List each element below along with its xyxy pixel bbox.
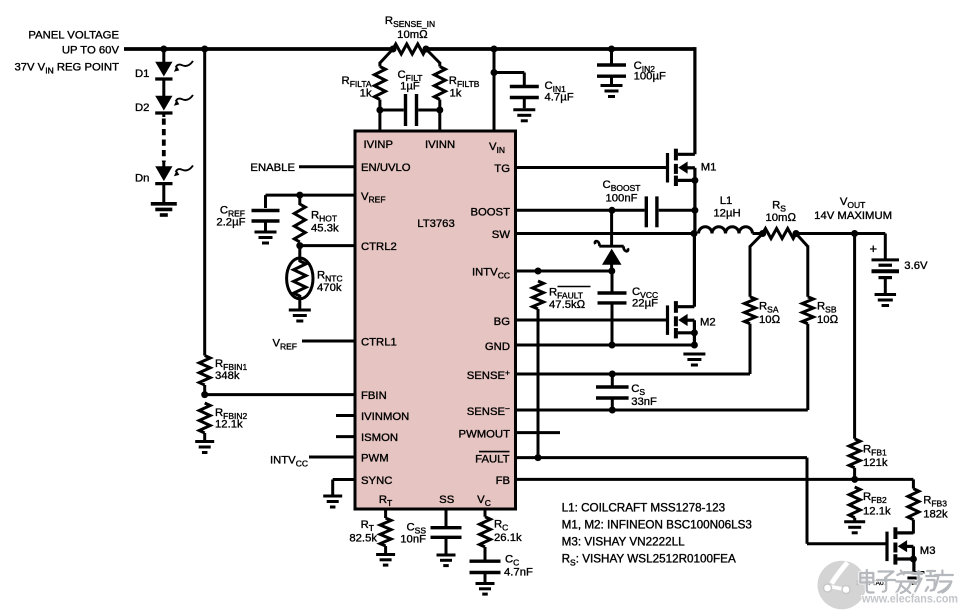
svg-text:M1: M1 <box>701 162 717 174</box>
svg-text:14V MAXIMUM: 14V MAXIMUM <box>814 210 892 222</box>
svg-text:1k: 1k <box>450 88 462 100</box>
svg-text:SYNC: SYNC <box>361 475 392 487</box>
svg-text:ISMON: ISMON <box>361 432 398 444</box>
svg-text:45.3k: 45.3k <box>311 223 339 235</box>
svg-text:M2: M2 <box>700 317 716 329</box>
svg-text:Dn: Dn <box>135 173 149 185</box>
svg-text:EN/UVLO: EN/UVLO <box>361 162 411 174</box>
svg-text:26.1k: 26.1k <box>494 532 522 544</box>
svg-text:1k: 1k <box>360 88 372 100</box>
svg-text:10Ω: 10Ω <box>759 314 781 326</box>
svg-text:L1: L1 <box>720 195 733 207</box>
svg-text:1µF: 1µF <box>400 81 420 93</box>
svg-text:TG: TG <box>494 163 510 175</box>
svg-text:10Ω: 10Ω <box>817 314 839 326</box>
svg-text:UP TO 60V: UP TO 60V <box>62 45 120 57</box>
svg-text:82.5k: 82.5k <box>349 533 377 545</box>
svg-text:4.7µF: 4.7µF <box>545 92 574 104</box>
svg-text:CTRL1: CTRL1 <box>361 337 397 349</box>
svg-text:12.1k: 12.1k <box>215 419 243 431</box>
svg-text:10mΩ: 10mΩ <box>397 29 428 41</box>
svg-text:CTRL2: CTRL2 <box>361 241 397 253</box>
svg-text:10mΩ: 10mΩ <box>765 212 796 224</box>
svg-text:10nF: 10nF <box>400 534 426 546</box>
svg-text:IVINN: IVINN <box>425 139 455 151</box>
svg-text:www.elecfans.com: www.elecfans.com <box>861 592 958 606</box>
svg-text:+: + <box>870 241 878 256</box>
svg-text:ENABLE: ENABLE <box>250 162 295 174</box>
svg-text:100µF: 100µF <box>634 71 666 83</box>
svg-text:SENSE−: SENSE− <box>467 403 510 418</box>
svg-text:BOOST: BOOST <box>470 207 510 219</box>
svg-text:4.7nF: 4.7nF <box>504 567 533 579</box>
svg-text:LT3763: LT3763 <box>417 218 454 230</box>
svg-text:22µF: 22µF <box>632 298 658 310</box>
svg-text:37V VIN REG POINT: 37V VIN REG POINT <box>14 62 119 76</box>
svg-text:121k: 121k <box>863 457 888 469</box>
svg-text:PWM: PWM <box>361 453 389 465</box>
svg-text:182k: 182k <box>923 509 948 521</box>
svg-text:FBIN: FBIN <box>361 390 387 402</box>
svg-text:2.2µF: 2.2µF <box>216 217 245 229</box>
svg-text:D2: D2 <box>135 102 149 114</box>
svg-text:RS: VISHAY WSL2512R0100FEA: RS: VISHAY WSL2512R0100FEA <box>562 553 736 568</box>
svg-text:47.5kΩ: 47.5kΩ <box>549 299 586 311</box>
svg-text:SENSE+: SENSE+ <box>467 367 510 382</box>
svg-text:IVINMON: IVINMON <box>361 411 409 423</box>
svg-text:BG: BG <box>494 316 510 328</box>
svg-text:PANEL VOLTAGE: PANEL VOLTAGE <box>28 30 119 42</box>
svg-text:IVINP: IVINP <box>364 139 394 151</box>
svg-text:SS: SS <box>439 494 455 506</box>
svg-text:GND: GND <box>485 341 510 353</box>
svg-text:L1: COILCRAFT MSS1278-123: L1: COILCRAFT MSS1278-123 <box>562 502 725 515</box>
svg-text:470k: 470k <box>317 282 342 294</box>
svg-text:M3: VISHAY VN2222LL: M3: VISHAY VN2222LL <box>562 536 686 549</box>
svg-text:100nF: 100nF <box>605 193 637 205</box>
svg-text:33nF: 33nF <box>631 396 657 408</box>
svg-text:3.6V: 3.6V <box>904 260 928 272</box>
svg-text:M3: M3 <box>920 545 936 557</box>
svg-text:SW: SW <box>492 229 511 241</box>
svg-text:FAULT: FAULT <box>475 453 509 465</box>
svg-text:12µH: 12µH <box>713 208 740 220</box>
svg-text:12.1k: 12.1k <box>863 506 891 518</box>
svg-text:M1, M2: INFINEON BSC100N06LS3: M1, M2: INFINEON BSC100N06LS3 <box>562 519 752 532</box>
svg-text:PWMOUT: PWMOUT <box>459 428 511 440</box>
svg-text:FB: FB <box>496 475 510 487</box>
svg-text:D1: D1 <box>135 68 149 80</box>
svg-text:348k: 348k <box>215 370 240 382</box>
